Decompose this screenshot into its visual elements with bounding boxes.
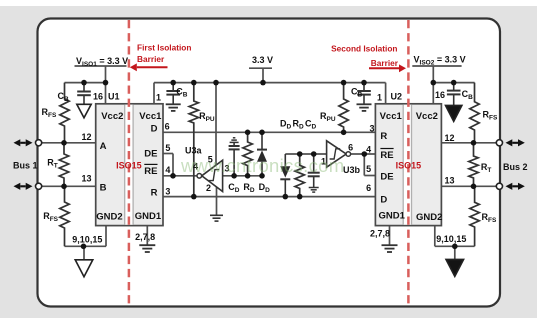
svg-text:5: 5 [366,164,371,174]
svg-text:Vcc2: Vcc2 [416,111,438,122]
svg-text:2,7,8: 2,7,8 [370,229,390,239]
svg-text:6: 6 [366,183,371,193]
svg-text:16: 16 [435,90,445,100]
svg-text:9,10,15: 9,10,15 [72,235,102,245]
svg-text:Second Isolation: Second Isolation [331,44,397,54]
svg-text:U1: U1 [108,91,120,101]
svg-text:www.cntronics.com: www.cntronics.com [180,155,344,176]
svg-text:U2: U2 [391,92,403,102]
svg-text:12: 12 [81,132,91,142]
svg-text:4: 4 [165,165,170,175]
svg-text:ISO15: ISO15 [116,160,142,170]
svg-text:6: 6 [165,121,170,131]
svg-text:5: 5 [165,143,170,153]
svg-text:3: 3 [165,186,170,196]
svg-text:R: R [151,187,158,198]
svg-text:U3b: U3b [343,165,361,175]
svg-text:RE: RE [144,166,157,177]
svg-text:13: 13 [81,174,91,184]
svg-text:Barrier: Barrier [371,58,399,68]
svg-text:13: 13 [445,176,455,186]
svg-text:2,7,8: 2,7,8 [135,232,155,242]
svg-text:DE: DE [144,149,157,160]
svg-text:D: D [151,124,158,135]
svg-text:1: 1 [156,93,161,103]
svg-text:GND1: GND1 [378,210,405,221]
svg-text:1: 1 [377,93,382,103]
svg-text:B: B [100,183,107,194]
svg-text:12: 12 [445,133,455,143]
svg-text:GND1: GND1 [135,211,162,222]
svg-text:3.3 V: 3.3 V [252,55,273,65]
svg-text:Vcc1: Vcc1 [139,111,162,122]
svg-text:ISO15: ISO15 [396,160,422,170]
svg-text:Bus 2: Bus 2 [503,162,528,172]
svg-text:DE: DE [380,172,393,183]
svg-text:Vcc1: Vcc1 [380,111,403,122]
svg-text:GND2: GND2 [96,212,122,223]
svg-text:R: R [380,131,387,142]
svg-text:A: A [100,141,107,152]
svg-text:First Isolation: First Isolation [137,43,191,53]
svg-text:GND2: GND2 [416,212,442,223]
svg-text:4: 4 [366,145,371,155]
svg-text:Bus 1: Bus 1 [13,161,38,171]
svg-text:3: 3 [369,124,374,134]
svg-text:Barrier: Barrier [137,54,165,64]
svg-text:Vcc2: Vcc2 [101,111,123,122]
svg-text:2: 2 [206,183,211,193]
svg-text:U3a: U3a [185,146,203,156]
svg-text:RE: RE [380,150,393,161]
svg-text:16: 16 [93,91,103,101]
svg-text:6: 6 [348,142,353,152]
svg-text:D: D [380,194,387,205]
svg-text:9,10,15: 9,10,15 [436,234,466,244]
